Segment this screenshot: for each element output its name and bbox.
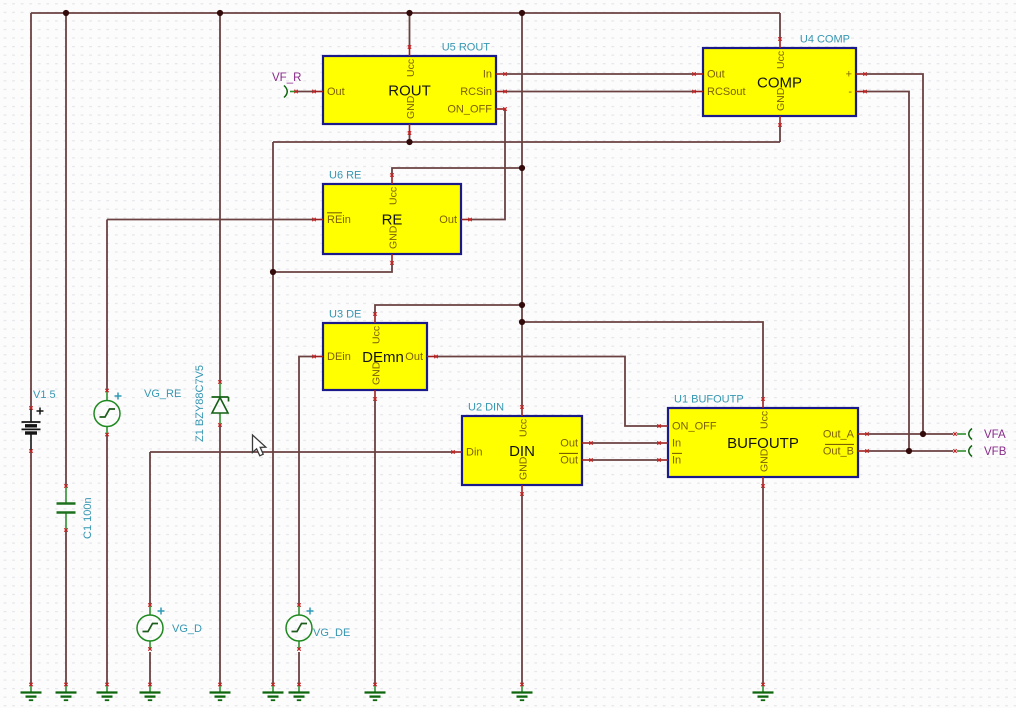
label VFB [984,446,1007,458]
wire U2 GND drop [521,494,523,686]
svg-text:VFB: VFB [984,446,1007,458]
wire GND rail vertical [272,142,274,686]
junction node 9 [519,319,525,325]
wire DEin to VG_DE [299,357,314,605]
svg-text:REin: REin [327,214,351,226]
wire C1 branch bottom [65,530,67,686]
pin U5 Out [312,90,323,93]
pin U3 Out [427,355,438,358]
svg-text:GND: GND [759,448,771,472]
wire Din horizontal [150,451,453,453]
ground at x=375 [365,683,386,700]
svg-text:RCSout: RCSout [707,86,746,98]
svg-text:Din: Din [466,447,483,459]
ground at x=31 [21,683,42,700]
svg-text:C1 100n: C1 100n [82,497,94,539]
macro block U1 BUFOUTP [668,394,858,478]
io connector VFB [953,446,972,457]
junction node 3 [406,10,412,16]
wire VG_DE bottom [298,652,300,686]
wire ROUT GND drop [409,133,411,142]
svg-text:GND: GND [775,87,787,111]
pin U6 REin [312,218,323,221]
svg-text:VF_R: VF_R [272,72,301,84]
svg-text:+: + [846,69,852,81]
wire ROUT ON_OFF to RE Out [470,109,505,220]
pin U5 GND [408,124,411,135]
pin U6 GND [390,254,393,265]
junction node 8 [519,302,525,308]
svg-text:U1 BUFOUTP: U1 BUFOUTP [674,394,744,406]
ground at x=150 [140,683,161,700]
junction node 10 [920,431,926,437]
label C1 100n [82,497,94,539]
wire Z1 branch bottom [219,425,221,686]
wire ROUT Ucc drop [409,13,411,47]
pin U4 Out [692,72,703,75]
pin U3 GND [373,390,376,401]
wire RE Ucc to bus [392,168,522,175]
label Z1 BZY88C7V5 [194,365,206,442]
svg-text:Out: Out [439,214,457,226]
svg-text:DEmn: DEmn [362,349,404,366]
macro block U6 RE [323,170,461,255]
svg-text:GND: GND [405,95,417,119]
pin U4 minus [856,90,867,93]
wire DEmn Out to U1 ON_OFF [436,357,659,427]
svg-text:Ucc: Ucc [775,51,787,69]
pin U1 In [657,441,668,444]
macro block U2 DIN [462,402,582,486]
svg-text:ON_OFF: ON_OFF [672,421,717,433]
pin U5 In [496,72,507,75]
label V1 5 [33,389,56,401]
svg-text:GND: GND [371,361,383,385]
svg-text:U6 RE: U6 RE [329,170,361,182]
pin U1 ON_OFF [657,424,668,427]
junction node 6 [270,269,276,275]
macro block U4 COMP [703,34,856,117]
svg-text:VG_DE: VG_DE [313,627,350,639]
svg-text:In: In [483,69,492,81]
label VFA [984,429,1006,441]
pin U4 GND [778,116,781,127]
wire Out_B to VFB [867,450,953,452]
wire REin horizontal [107,219,314,221]
pin U5 Ucc [408,45,411,56]
wire VG_RE up to REin row [106,220,108,391]
pin U3 DEin [312,355,323,358]
wire Ucc bus vertical [521,13,523,407]
pin U2 GND [520,485,523,496]
svg-text:VG_RE: VG_RE [144,388,181,400]
svg-text:V1 5: V1 5 [33,389,56,401]
wire VG_RE bottom [106,434,108,686]
io connector VF_R [284,86,298,98]
ground at x=299 [289,683,310,700]
capacitor C1 [57,484,76,531]
junction node 5 [406,139,412,145]
svg-text:In: In [672,438,681,450]
io connector VFA [953,429,972,440]
macro block U5 ROUT [323,42,496,125]
junction node 11 [906,448,912,454]
svg-text:Ucc: Ucc [388,187,400,205]
pin U1 GND [761,477,764,488]
wire V1 bottom lead [30,451,32,686]
ground at x=522 [512,683,533,700]
label VG_D [172,623,202,635]
pin U6 Ucc [390,173,393,184]
wire COMP minus to VFB [865,92,909,452]
pin U4 RCSout [692,90,703,93]
wire Z1 branch top [219,13,221,382]
pin U5 ON_OFF [496,107,507,110]
wire RE GND to rail [273,263,392,272]
svg-text:-: - [848,86,852,98]
macro block U3 DE [323,309,427,391]
pin U1 Ucc [761,397,764,408]
svg-text:Out_A: Out_A [823,429,855,441]
pin U6 Out [461,218,472,221]
wire COMP plus to VFA [865,74,923,434]
svg-text:U5 ROUT: U5 ROUT [442,42,491,54]
pin U4 plus [856,72,867,75]
pin U5 RCSin [496,90,507,93]
wire COMP GND drop [779,125,781,142]
source VG_D [137,603,165,650]
ground at x=220 [210,683,231,700]
wire VG_D bottom [149,652,151,686]
svg-text:Ucc: Ucc [371,326,383,344]
pin U3 Ucc [373,312,376,323]
pin U4 Ucc [778,37,781,48]
svg-text:Ucc: Ucc [405,59,417,77]
source VG_DE [286,603,314,650]
svg-text:VFA: VFA [984,429,1006,441]
svg-text:U2 DIN: U2 DIN [468,402,504,414]
wire VG_D vertical [149,452,151,604]
battery V1 [22,406,44,452]
wire C1 branch top [65,13,67,486]
svg-text:Out: Out [707,69,725,81]
ground at x=273 [263,683,284,700]
junction node 7 [519,165,525,171]
source VG_RE [94,389,122,436]
ground at x=66 [56,683,77,700]
svg-text:Out_B: Out_B [823,446,854,458]
wire U2 nOut to U1 nIn [591,459,659,461]
svg-text:GND: GND [388,225,400,249]
pin U1 Out_B [858,449,869,452]
label VF_R [272,72,301,84]
svg-text:ON_OFF: ON_OFF [447,104,492,116]
pin U2 nOut [582,458,593,461]
wire COMP Ucc drop [779,13,781,39]
pin U2 Ucc [520,405,523,416]
wire ROUT RCSin to COMP RCSout [505,91,694,93]
svg-text:Out: Out [405,351,423,363]
junction node 1 [63,10,69,16]
svg-text:U3 DE: U3 DE [329,309,361,321]
ground at x=763 [753,683,774,700]
svg-text:In: In [672,455,681,467]
wire U1 GND drop [762,486,764,686]
svg-text:Out: Out [560,438,578,450]
svg-text:Ucc: Ucc [759,411,771,429]
wire VF_R to ROUT Out [296,91,314,93]
wire bus to U1 Ucc [522,322,763,399]
zener diode Z1 [212,380,229,426]
wire ROUT In to COMP Out [505,73,694,75]
svg-text:Out: Out [327,86,345,98]
pin U1 Out_A [858,432,869,435]
wire V1 top lead [30,13,32,408]
wire DE Ucc to bus [375,305,522,314]
label VG_DE [313,627,350,639]
svg-text:DEin: DEin [327,351,351,363]
junction node 2 [217,10,223,16]
svg-text:U4 COMP: U4 COMP [800,34,850,46]
pin U2 Din [451,450,462,453]
wire GND rail horizontal [273,141,780,143]
ground at x=107 [97,683,118,700]
svg-text:VG_D: VG_D [172,623,202,635]
wire Out_A to VFA [867,433,953,435]
pin U1 nIn [657,458,668,461]
wire top supply rail [31,12,780,14]
wire DE GND drop [374,399,376,686]
svg-text:GND: GND [518,456,530,480]
wire U2 Out to U1 In [591,442,659,444]
svg-text:RCSin: RCSin [460,86,492,98]
mouse cursor [253,435,266,456]
pin U2 Out [582,441,593,444]
svg-text:Out: Out [560,455,578,467]
junction node 4 [519,10,525,16]
svg-text:Z1 BZY88C7V5: Z1 BZY88C7V5 [194,365,206,442]
label VG_RE [144,388,181,400]
svg-text:Ucc: Ucc [518,419,530,437]
